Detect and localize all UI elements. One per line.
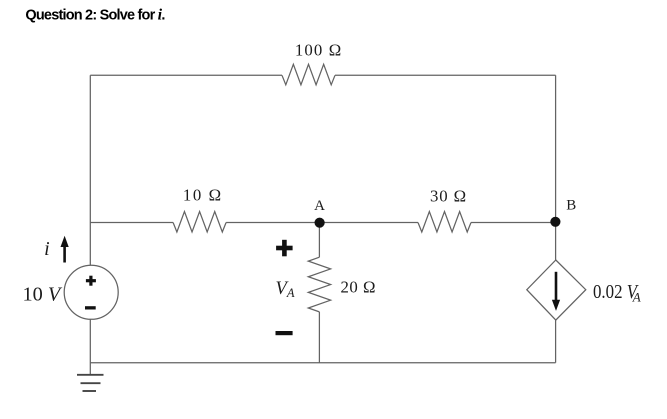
svg-text:10 V: 10 V <box>23 284 63 306</box>
svg-text:10 Ω: 10 Ω <box>183 185 223 204</box>
svg-text:20 Ω: 20 Ω <box>341 278 376 297</box>
svg-text:100 Ω: 100 Ω <box>295 40 342 59</box>
svg-text:i: i <box>44 238 50 260</box>
svg-text:A: A <box>314 198 325 214</box>
svg-text:A: A <box>632 290 641 305</box>
svg-text:Question 2: Solve for i.: Question 2: Solve for i. <box>25 7 165 24</box>
svg-text:VA: VA <box>276 279 295 300</box>
svg-text:30 Ω: 30 Ω <box>430 186 467 205</box>
svg-text:B: B <box>566 198 576 214</box>
